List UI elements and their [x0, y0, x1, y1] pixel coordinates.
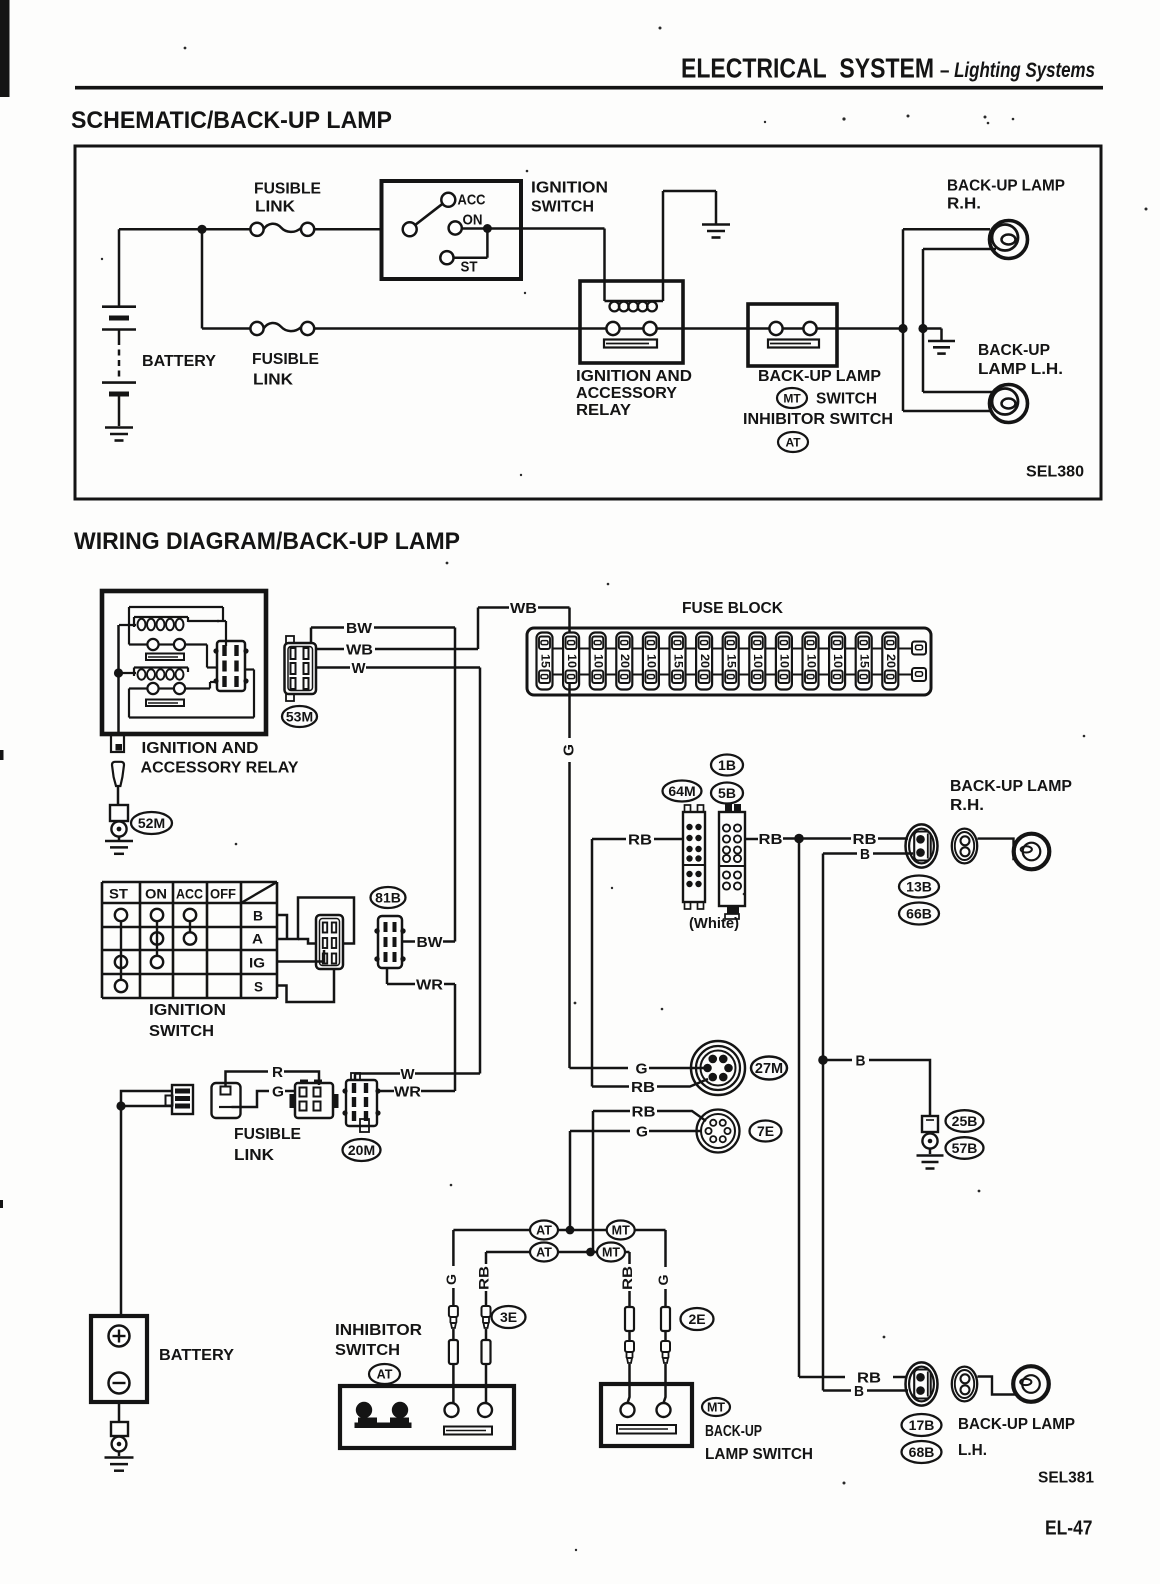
svg-text:68B: 68B [909, 1444, 935, 1460]
svg-text:10: 10 [565, 654, 579, 668]
svg-text:ST: ST [109, 886, 128, 902]
svg-text:IGNITION: IGNITION [531, 180, 608, 197]
svg-text:SWITCH: SWITCH [816, 391, 877, 408]
svg-text:MT: MT [707, 1401, 725, 1415]
svg-text:R.H.: R.H. [950, 797, 984, 814]
svg-text:1B: 1B [718, 757, 736, 773]
svg-text:WB: WB [510, 600, 537, 617]
svg-text:13B: 13B [906, 879, 932, 895]
svg-text:57B: 57B [952, 1140, 978, 1156]
svg-text:A: A [252, 931, 263, 947]
svg-text:B: B [854, 1383, 864, 1400]
svg-text:15: 15 [725, 654, 739, 668]
svg-text:LINK: LINK [255, 199, 295, 216]
svg-text:RB: RB [759, 831, 783, 848]
svg-text:SWITCH: SWITCH [531, 199, 594, 216]
svg-text:20: 20 [618, 654, 632, 668]
svg-text:G: G [655, 1274, 671, 1285]
svg-text:B: B [253, 908, 263, 924]
svg-text:RB: RB [476, 1266, 492, 1290]
svg-text:BATTERY: BATTERY [142, 353, 216, 370]
svg-text:ACC: ACC [176, 886, 203, 902]
svg-text:BACK-UP LAMP: BACK-UP LAMP [950, 778, 1072, 795]
svg-text:15: 15 [671, 654, 685, 668]
svg-text:7E: 7E [757, 1123, 774, 1139]
svg-text:BW: BW [346, 620, 373, 637]
svg-text:SEL380: SEL380 [1026, 464, 1084, 481]
svg-text:B: B [860, 846, 870, 863]
svg-text:64M: 64M [668, 783, 695, 799]
svg-text:IGNITION: IGNITION [149, 1002, 226, 1019]
svg-text:B: B [856, 1052, 866, 1069]
svg-text:EL-47: EL-47 [1045, 1517, 1093, 1540]
svg-text:INHIBITOR SWITCH: INHIBITOR SWITCH [743, 411, 893, 428]
svg-text:INHIBITOR: INHIBITOR [335, 1322, 422, 1339]
svg-text:OFF: OFF [210, 886, 236, 902]
svg-text:G: G [443, 1274, 459, 1285]
svg-text:FUSIBLE: FUSIBLE [252, 351, 319, 368]
svg-text:BACK-UP: BACK-UP [978, 342, 1050, 359]
svg-text:BACK-UP: BACK-UP [705, 1423, 762, 1440]
svg-text:G: G [636, 1123, 648, 1140]
svg-text:G: G [636, 1060, 648, 1077]
svg-text:ON: ON [145, 886, 167, 902]
svg-text:LAMP L.H.: LAMP L.H. [978, 361, 1063, 378]
svg-text:BACK-UP LAMP: BACK-UP LAMP [947, 177, 1065, 194]
svg-text:ACC: ACC [458, 192, 486, 209]
svg-text:3E: 3E [500, 1309, 517, 1325]
svg-text:BACK-UP LAMP: BACK-UP LAMP [758, 368, 881, 385]
svg-text:MT: MT [612, 1224, 630, 1238]
svg-text:G: G [560, 744, 577, 756]
svg-text:20: 20 [698, 654, 712, 668]
svg-text:ELECTRICAL SYSTEM: ELECTRICAL SYSTEM [681, 53, 934, 84]
svg-text:MT: MT [602, 1246, 620, 1260]
svg-text:10: 10 [645, 654, 659, 668]
svg-text:IGNITION AND: IGNITION AND [142, 740, 259, 757]
svg-text:MT: MT [783, 391, 801, 405]
svg-text:ACCESSORY: ACCESSORY [576, 385, 677, 402]
svg-text:52M: 52M [138, 815, 165, 831]
svg-text:66B: 66B [906, 906, 932, 922]
svg-text:10: 10 [831, 654, 845, 668]
svg-text:27M: 27M [755, 1061, 783, 1077]
svg-text:20: 20 [884, 654, 898, 668]
svg-text:SWITCH: SWITCH [335, 1342, 400, 1359]
svg-text:RELAY: RELAY [576, 402, 631, 419]
svg-text:10: 10 [778, 654, 792, 668]
svg-text:AT: AT [377, 1368, 393, 1382]
svg-text:25B: 25B [952, 1113, 978, 1129]
svg-text:LINK: LINK [234, 1147, 274, 1164]
svg-text:RB: RB [631, 1079, 655, 1096]
svg-text:20M: 20M [348, 1142, 375, 1158]
svg-text:BW: BW [417, 934, 444, 951]
svg-text:SWITCH: SWITCH [149, 1023, 214, 1040]
svg-text:G: G [272, 1083, 284, 1100]
svg-text:RB: RB [632, 1103, 656, 1120]
svg-text:W: W [401, 1066, 416, 1083]
svg-text:10: 10 [804, 654, 818, 668]
svg-text:53M: 53M [286, 709, 313, 725]
svg-text:WR: WR [416, 976, 443, 993]
svg-text:ACCESSORY RELAY: ACCESSORY RELAY [141, 760, 299, 777]
svg-text:10: 10 [592, 654, 606, 668]
svg-text:L.H.: L.H. [958, 1442, 987, 1459]
svg-text:BATTERY: BATTERY [159, 1347, 234, 1364]
svg-text:ST: ST [461, 258, 478, 275]
svg-text:WB: WB [346, 641, 373, 658]
svg-text:ON: ON [463, 211, 483, 228]
svg-text:15: 15 [858, 654, 872, 668]
svg-text:(White): (White) [689, 915, 739, 932]
svg-text:5B: 5B [718, 785, 736, 801]
svg-text:AT: AT [785, 435, 801, 449]
svg-text:FUSE BLOCK: FUSE BLOCK [682, 600, 783, 617]
svg-text:SEL381: SEL381 [1038, 1470, 1094, 1487]
svg-text:WIRING DIAGRAM/BACK-UP LAMP: WIRING DIAGRAM/BACK-UP LAMP [74, 528, 460, 555]
svg-text:BACK-UP LAMP: BACK-UP LAMP [958, 1416, 1075, 1433]
svg-text:RB: RB [628, 831, 652, 848]
svg-text:17B: 17B [909, 1417, 935, 1433]
svg-text:R.H.: R.H. [947, 196, 981, 213]
svg-text:15: 15 [538, 654, 552, 668]
svg-text:FUSIBLE: FUSIBLE [254, 181, 321, 198]
svg-text:81B: 81B [375, 890, 401, 906]
svg-text:AT: AT [536, 1246, 552, 1260]
svg-text:LAMP SWITCH: LAMP SWITCH [705, 1446, 813, 1463]
svg-text:SCHEMATIC/BACK-UP LAMP: SCHEMATIC/BACK-UP LAMP [71, 107, 392, 134]
svg-text:W: W [352, 660, 367, 677]
svg-text:IG: IG [249, 955, 265, 971]
svg-text:AT: AT [536, 1224, 552, 1238]
svg-text:IGNITION AND: IGNITION AND [576, 368, 692, 385]
svg-text:LINK: LINK [253, 372, 293, 389]
svg-text:WR: WR [394, 1083, 421, 1100]
svg-text:2E: 2E [688, 1311, 705, 1327]
svg-text:FUSIBLE: FUSIBLE [234, 1126, 301, 1143]
svg-text:S: S [254, 979, 263, 995]
svg-text:10: 10 [751, 654, 765, 668]
svg-text:R: R [272, 1064, 283, 1081]
svg-text:– Lighting Systems: – Lighting Systems [940, 59, 1095, 82]
svg-text:RB: RB [619, 1266, 635, 1290]
